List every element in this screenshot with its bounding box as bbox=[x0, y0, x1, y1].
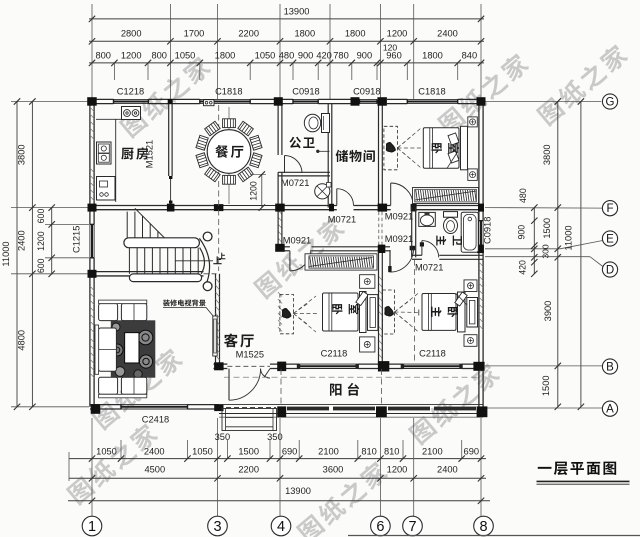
door M0921 corridor-master bbox=[388, 249, 413, 273]
svg-text:900: 900 bbox=[357, 50, 373, 60]
svg-text:1800: 1800 bbox=[345, 29, 366, 39]
bedroom1 wardrobe hatched bbox=[413, 188, 479, 204]
wall B horizontal bbox=[214, 364, 484, 368]
svg-text:M0721: M0721 bbox=[415, 263, 443, 273]
staircase upper flight treads bbox=[127, 208, 166, 240]
svg-text:4: 4 bbox=[277, 519, 285, 535]
staircase handrail bbox=[124, 232, 212, 291]
svg-text:4500: 4500 bbox=[144, 465, 165, 475]
wall A bottom living-room bbox=[90, 405, 219, 409]
svg-text:1800: 1800 bbox=[215, 50, 236, 60]
wall kitchen-dining axis2 bbox=[169, 104, 173, 205]
wall left exterior axis1 bbox=[90, 102, 94, 407]
svg-text:C0918: C0918 bbox=[292, 87, 319, 97]
svg-text:1200: 1200 bbox=[387, 465, 408, 475]
wall hatch marks bbox=[90, 107, 483, 378]
right axis circles G F E D B A bbox=[602, 94, 617, 416]
bottom dimension labels bbox=[96, 432, 479, 496]
bedroom2 wardrobe hatched bbox=[305, 254, 377, 270]
wall bath bottom y174 bbox=[278, 171, 330, 173]
vent device dining top wall bbox=[204, 100, 215, 106]
svg-text:2400: 2400 bbox=[17, 230, 27, 251]
svg-text:11000: 11000 bbox=[564, 225, 574, 250]
bedroom2 nightstands bbox=[360, 275, 375, 289]
svg-text:2200: 2200 bbox=[238, 465, 259, 475]
title underline double bbox=[537, 481, 630, 484]
svg-text:A: A bbox=[606, 404, 614, 416]
top dimension lines bbox=[89, 4, 484, 100]
svg-text:1500: 1500 bbox=[541, 375, 551, 396]
svg-text:840: 840 bbox=[462, 50, 478, 60]
svg-text:E: E bbox=[606, 234, 614, 246]
svg-text:8: 8 bbox=[479, 519, 487, 535]
svg-text:M0921: M0921 bbox=[385, 212, 413, 222]
kitchen stove bbox=[122, 107, 141, 120]
wall bath axis4 vertical bbox=[278, 104, 282, 247]
dining round table bbox=[207, 130, 251, 174]
balcony dashed lines bbox=[224, 369, 478, 404]
svg-text:C0918: C0918 bbox=[353, 87, 380, 97]
svg-text:C2118: C2118 bbox=[419, 349, 446, 359]
svg-text:600: 600 bbox=[36, 258, 46, 273]
dining table centerline bbox=[228, 107, 230, 204]
label master bedroom 主卧 rotated bbox=[431, 307, 458, 318]
svg-text:M0721: M0721 bbox=[281, 178, 309, 188]
bottom right border line bbox=[348, 535, 640, 537]
window C2418 bottom bbox=[121, 404, 188, 406]
public-bath label leader bbox=[317, 150, 330, 152]
entrance steps bbox=[222, 409, 277, 431]
svg-text:690: 690 bbox=[464, 447, 480, 457]
master-bath toilet bbox=[444, 212, 458, 234]
wall E bedroom2 top bbox=[278, 247, 380, 251]
svg-text:900: 900 bbox=[516, 225, 526, 240]
wall storage-bedroom axis6 upper bbox=[378, 104, 380, 208]
window C1818 top bbox=[200, 98, 250, 100]
svg-text:M1525: M1525 bbox=[236, 350, 264, 360]
window C1215 left bbox=[89, 224, 91, 257]
svg-text:350: 350 bbox=[215, 432, 231, 442]
svg-text:350: 350 bbox=[267, 432, 283, 442]
svg-text:1500: 1500 bbox=[542, 218, 552, 239]
master nightstands bbox=[464, 280, 477, 292]
left dimension lines bbox=[11, 98, 89, 410]
svg-text:900: 900 bbox=[298, 50, 314, 60]
door M0721 storage bbox=[337, 189, 354, 206]
master wardrobe dashed with fan bbox=[382, 290, 420, 334]
window C2118 right bbox=[403, 363, 462, 365]
svg-text:2100: 2100 bbox=[318, 447, 339, 457]
svg-text:C1215: C1215 bbox=[72, 226, 82, 253]
svg-text:690: 690 bbox=[282, 447, 298, 457]
dining chairs bbox=[196, 119, 262, 184]
label storage 储物间 bbox=[336, 150, 375, 162]
svg-text:420: 420 bbox=[316, 50, 332, 60]
label balcony 阳台 bbox=[330, 383, 359, 396]
label living room 客厅 bbox=[224, 334, 254, 348]
living room TV wall unit bbox=[213, 316, 217, 356]
svg-text:3600: 3600 bbox=[323, 465, 344, 475]
svg-text:C2418: C2418 bbox=[142, 415, 169, 425]
svg-text:C1218: C1218 bbox=[117, 87, 144, 97]
wall E corridor segment bbox=[382, 246, 415, 251]
svg-text:1200: 1200 bbox=[36, 231, 46, 251]
svg-text:3: 3 bbox=[213, 519, 221, 535]
svg-text:1200: 1200 bbox=[121, 50, 142, 60]
column F axis7 bbox=[411, 204, 417, 212]
wall master-bath bottom bbox=[412, 255, 483, 259]
dashes D to axis3 bbox=[204, 273, 220, 275]
door M0721 public-bath bbox=[285, 156, 303, 174]
svg-text:1: 1 bbox=[88, 519, 96, 535]
wall storage axis5 bbox=[327, 104, 329, 208]
svg-text:1050: 1050 bbox=[96, 447, 117, 457]
window C1818 top b bbox=[407, 98, 457, 100]
svg-text:1500: 1500 bbox=[238, 447, 259, 457]
bedroom1 bed bbox=[423, 126, 467, 170]
TV background label bbox=[163, 307, 214, 316]
living room sofa set bbox=[95, 300, 155, 398]
svg-text:6: 6 bbox=[376, 519, 384, 535]
kitchen counter bbox=[96, 119, 140, 202]
master headboard panel bbox=[467, 298, 478, 328]
bottom axis circles 1 3 4 6 7 8 bbox=[82, 516, 493, 536]
svg-text:C2118: C2118 bbox=[321, 349, 348, 359]
bedroom1 nightstands bbox=[468, 117, 478, 127]
window C0918 top b bbox=[360, 98, 378, 100]
corridor axis6 dashed F-E bbox=[379, 212, 382, 245]
svg-text:1800: 1800 bbox=[422, 50, 443, 60]
svg-text:11000: 11000 bbox=[1, 241, 11, 266]
svg-text:7: 7 bbox=[408, 519, 416, 535]
staircase lower flight treads bbox=[129, 248, 198, 274]
columns black piers bbox=[87, 97, 487, 417]
washer floor-drain circle bbox=[315, 183, 331, 199]
svg-text:D: D bbox=[606, 265, 614, 277]
label bedroom2 卧室 rotated bbox=[332, 304, 359, 314]
svg-text:3800: 3800 bbox=[542, 144, 552, 165]
wall axis3 TV wall D-B bbox=[216, 274, 220, 367]
dim 1200 dining-hall bbox=[249, 171, 267, 211]
svg-text:M0921: M0921 bbox=[385, 234, 413, 244]
svg-text:C1818: C1818 bbox=[418, 87, 445, 97]
door M0921 bedroom2 bbox=[290, 250, 311, 271]
label master bath 主卫 rotated bbox=[436, 236, 462, 246]
label dining 餐厅 bbox=[215, 145, 243, 158]
master bed bbox=[422, 292, 465, 332]
svg-text:1700: 1700 bbox=[184, 29, 205, 39]
staircase direction arrow bbox=[175, 260, 213, 262]
wall G top exterior bbox=[90, 99, 483, 103]
svg-text:B: B bbox=[606, 362, 614, 374]
svg-text:3800: 3800 bbox=[17, 144, 27, 165]
svg-text:M0721: M0721 bbox=[328, 215, 356, 225]
svg-text:420: 420 bbox=[517, 260, 527, 275]
window C2118 left bbox=[299, 363, 358, 365]
svg-text:2400: 2400 bbox=[437, 29, 458, 39]
svg-text:1050: 1050 bbox=[192, 447, 213, 457]
svg-text:480: 480 bbox=[279, 50, 295, 60]
bedroom2 headboard panel bbox=[368, 295, 378, 331]
wall right exterior axis8 bbox=[479, 102, 483, 407]
top dimension labels bbox=[95, 6, 477, 60]
svg-text:2400: 2400 bbox=[144, 447, 165, 457]
svg-text:800: 800 bbox=[95, 50, 111, 60]
window C1218 top bbox=[114, 98, 149, 100]
master-bath bathtub bbox=[461, 212, 478, 252]
door M0721 master-bath bbox=[420, 241, 439, 258]
svg-text:4800: 4800 bbox=[17, 330, 27, 351]
wall D under stairs bbox=[90, 271, 204, 273]
svg-text:C1818: C1818 bbox=[215, 87, 242, 97]
label stairs up 上 bbox=[219, 253, 226, 260]
kitchen sink double bbox=[97, 142, 112, 164]
bedroom2 bed bbox=[323, 292, 367, 333]
svg-text:810: 810 bbox=[384, 447, 400, 457]
svg-text:2800: 2800 bbox=[121, 29, 142, 39]
svg-text:480: 480 bbox=[518, 188, 528, 203]
stair up label bbox=[213, 256, 221, 264]
window C0918 top a bbox=[293, 98, 318, 100]
svg-text:810: 810 bbox=[361, 447, 377, 457]
svg-text:1200: 1200 bbox=[249, 181, 259, 201]
wall master-bath left axis7 bbox=[411, 208, 413, 258]
public-bath toilet bbox=[304, 114, 329, 133]
label kitchen 厨房 bbox=[121, 147, 148, 159]
svg-text:G: G bbox=[606, 97, 615, 109]
svg-text:M0921: M0921 bbox=[283, 236, 311, 246]
window C0918 right bbox=[478, 221, 480, 246]
svg-text:1800: 1800 bbox=[294, 29, 315, 39]
svg-text:120: 120 bbox=[383, 43, 398, 53]
svg-text:C0918: C0918 bbox=[482, 217, 492, 244]
dashed axis3 line through stairwell bbox=[218, 105, 220, 271]
right dimension lines bbox=[485, 98, 603, 410]
door M0921 bedroom1 bbox=[391, 183, 413, 205]
svg-text:13900: 13900 bbox=[284, 6, 310, 16]
svg-text:300: 300 bbox=[541, 244, 551, 259]
svg-text:1050: 1050 bbox=[175, 50, 196, 60]
label public bath 公卫 bbox=[289, 137, 314, 149]
bottom dimension lines bbox=[68, 418, 490, 516]
svg-text:800: 800 bbox=[151, 50, 167, 60]
svg-text:F: F bbox=[606, 203, 613, 215]
svg-text:M1521: M1521 bbox=[145, 140, 155, 168]
master-bath sink bbox=[419, 212, 436, 226]
wall F horizontal bbox=[90, 206, 483, 210]
label TV background 装修电视背景 bbox=[163, 299, 206, 306]
svg-text:780: 780 bbox=[333, 50, 349, 60]
balcony front railing wall bbox=[219, 405, 483, 418]
svg-text:13900: 13900 bbox=[285, 486, 311, 496]
wall axis6 lower E-B bbox=[378, 249, 380, 366]
title 一层平面图 bbox=[538, 462, 616, 475]
svg-text:3900: 3900 bbox=[543, 301, 553, 322]
bedroom2 wardrobe dashed with fan bbox=[280, 294, 318, 333]
dashed axis7 line master bedroom bbox=[414, 260, 416, 362]
svg-text:2200: 2200 bbox=[238, 29, 259, 39]
svg-text:1050: 1050 bbox=[255, 50, 276, 60]
right dimension labels bbox=[482, 144, 573, 396]
door M1525 entrance bbox=[229, 369, 270, 401]
left dimension labels bbox=[1, 144, 82, 350]
svg-text:600: 600 bbox=[36, 209, 46, 224]
kitchen fridge bbox=[97, 177, 116, 201]
svg-text:1200: 1200 bbox=[387, 29, 408, 39]
svg-text:2400: 2400 bbox=[437, 465, 458, 475]
label bedroom1 卧室 rotated bbox=[431, 143, 458, 153]
bedroom1 wardrobe dashed with fan bbox=[384, 126, 421, 170]
window jamb marks B wall bbox=[297, 364, 463, 368]
svg-text:2100: 2100 bbox=[422, 447, 443, 457]
